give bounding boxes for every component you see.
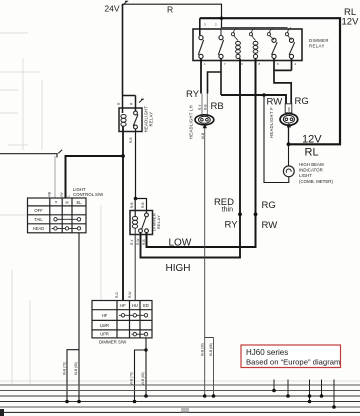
svg-text:OFF: OFF xyxy=(34,208,43,213)
ground bus rails at bottom xyxy=(0,385,360,412)
svg-text:RB: RB xyxy=(211,101,224,112)
headlight relay box xyxy=(119,108,142,132)
svg-text:RELAY: RELAY xyxy=(149,112,154,127)
wire coil output to dimmer switch HU xyxy=(134,228,136,301)
svg-text:LIGHT: LIGHT xyxy=(299,173,312,178)
light control switch feed line from left xyxy=(0,154,57,158)
node junction 12V RL at headlight F xyxy=(287,142,291,146)
node junctions on ground rails left xyxy=(65,394,215,403)
svg-text:(COMB. METER): (COMB. METER) xyxy=(299,179,333,184)
arrowhead at headlight LH bottom terminal xyxy=(203,124,207,128)
jumper hooks from internal rail xyxy=(233,28,291,41)
node junction 24V wire crossing RL bus xyxy=(220,17,223,20)
label RL 12V top right xyxy=(342,7,360,28)
light control switch table xyxy=(28,198,87,233)
svg-text:HF: HF xyxy=(120,303,126,308)
svg-text:T: T xyxy=(55,200,58,205)
light control switch TAIL contacts xyxy=(54,218,81,221)
svg-text:CONTROL S/W: CONTROL S/W xyxy=(73,192,104,197)
switch contact S1 in dimmer relay xyxy=(198,36,203,59)
tiny labels above light control switch xyxy=(48,191,71,196)
ground stub wires bottom right xyxy=(274,380,334,408)
relay coil L2 in dimmer relay xyxy=(253,41,258,58)
tiny wire labels at headlight LH xyxy=(198,104,207,139)
relay coil L1 in dimmer relay xyxy=(236,41,241,58)
label 12V xyxy=(302,134,322,146)
label RG mid xyxy=(262,200,276,211)
svg-text:R-B: R-B xyxy=(203,105,207,111)
svg-text:HEADLIGHT F: HEADLIGHT F xyxy=(269,107,274,138)
label HEADLIGHT F rotated xyxy=(269,107,274,138)
svg-text:RG: RG xyxy=(287,106,291,111)
wire headlight relay switch output down to dimmer relay 2 xyxy=(135,129,137,199)
wire indicator return to RW node xyxy=(264,95,289,183)
svg-text:W-B (30): W-B (30) xyxy=(200,343,204,356)
wire junction feeding headlight relay xyxy=(123,96,136,114)
svg-text:W-B: W-B xyxy=(201,133,205,139)
label RED thin xyxy=(214,197,234,214)
connector tick at 24V feed xyxy=(123,1,129,5)
label HIGH BEAM INDICATOR LIGHT xyxy=(299,162,333,184)
node junction indicator tap on RW wire xyxy=(262,93,266,97)
label DIMMER RELAY rotated xyxy=(152,213,162,231)
connector tick on light switch feed xyxy=(58,150,62,154)
svg-text:HIGH: HIGH xyxy=(166,263,191,274)
switch contacts in small dimmer relay xyxy=(139,213,149,233)
svg-text:ED: ED xyxy=(143,303,149,308)
tiny ground wire labels at headlight LH common xyxy=(200,343,213,356)
svg-text:HJ60 series: HJ60 series xyxy=(246,348,288,357)
wire headlight LH common down to ground rails xyxy=(205,128,214,396)
node junctions on ground rails right xyxy=(272,389,336,409)
wire headlight F common to 12V RL node xyxy=(288,126,290,144)
label DIMMER S/W xyxy=(99,340,127,345)
svg-text:12V: 12V xyxy=(302,134,322,146)
svg-text:LWR: LWR xyxy=(100,323,109,328)
wire RL 12V thick bus (top) xyxy=(200,18,340,144)
wire internal supply rail of dimmer relay xyxy=(222,27,288,29)
label HEADLIGHT LH rotated xyxy=(189,105,194,139)
svg-text:RG: RG xyxy=(262,200,276,211)
tiny ground wire labels left xyxy=(63,362,79,375)
wire thick down to dimmer switch HF xyxy=(122,156,124,301)
wire 24V vertical feed to headlight relay xyxy=(122,4,124,96)
svg-text:R: R xyxy=(167,5,173,15)
dimmer relay (small) box xyxy=(130,211,153,235)
headlight F lamp xyxy=(280,114,298,126)
svg-text:R-B: R-B xyxy=(142,240,146,246)
svg-text:RG: RG xyxy=(295,96,309,107)
label RG xyxy=(295,96,309,107)
connector tick right of headlight relay feed xyxy=(139,99,144,103)
svg-text:INDICATOR: INDICATOR xyxy=(299,168,323,173)
svg-text:RB: RB xyxy=(48,192,52,196)
tiny wire labels R at headlight relay xyxy=(117,102,134,105)
wire RB branch from pin2 to headlight LH xyxy=(208,59,222,96)
svg-text:RW: RW xyxy=(267,97,283,108)
tiny labels below small dimmer relay xyxy=(130,239,146,245)
wire EL output of light control switch to ground rails xyxy=(67,233,79,402)
svg-text:R-B: R-B xyxy=(129,138,133,144)
label LOW xyxy=(169,238,192,249)
wire dimmer switch ED to ground rails xyxy=(135,338,147,402)
svg-text:R-W: R-W xyxy=(136,239,140,245)
wire RG from pins 5,6 to headlight F xyxy=(274,59,292,105)
label RB xyxy=(211,101,224,112)
connector block at headlight F xyxy=(285,104,292,113)
node junction at y156 xyxy=(121,154,125,158)
switch contact in headlight relay xyxy=(133,111,138,129)
label LIGHT CONTROL S/W xyxy=(73,187,104,197)
svg-text:RL: RL xyxy=(305,147,319,159)
relay coil in small dimmer relay xyxy=(132,217,137,229)
svg-text:HEAD: HEAD xyxy=(33,226,45,231)
svg-text:R-B: R-B xyxy=(130,203,134,209)
headlight LH lamp xyxy=(195,115,214,125)
node crossing dots on HIGH and LOW verticals xyxy=(238,212,257,216)
switch contact S4 in dimmer relay xyxy=(289,38,295,58)
note box HJ60 series xyxy=(241,345,341,368)
switch contact S3 in dimmer relay xyxy=(272,38,278,58)
svg-text:W-B (70): W-B (70) xyxy=(130,372,134,385)
svg-text:DIMMER S/W: DIMMER S/W xyxy=(99,340,127,345)
faint wire into light control switch T xyxy=(54,156,56,198)
tiny labels above small dimmer relay xyxy=(130,203,145,209)
wire LOW from small dimmer relay to dimmer relay pin4 xyxy=(147,59,256,248)
svg-text:DIMMER: DIMMER xyxy=(309,38,329,43)
svg-text:R-W: R-W xyxy=(128,292,132,298)
dimmer switch table xyxy=(92,301,152,338)
svg-text:RW: RW xyxy=(262,220,278,231)
svg-text:R-B: R-B xyxy=(141,203,145,209)
svg-text:W-B (66): W-B (66) xyxy=(209,343,213,356)
relay coil in headlight relay xyxy=(121,115,126,127)
svg-text:HU: HU xyxy=(132,303,138,308)
high beam indicator lamp xyxy=(283,166,294,177)
wire headlight relay coil output (thick) xyxy=(122,126,124,156)
switch contact S2 in dimmer relay xyxy=(218,36,223,59)
svg-text:W-B (70): W-B (70) xyxy=(63,362,67,375)
smudge label on rails xyxy=(181,408,189,413)
label RL xyxy=(305,147,319,159)
wire RW from pin2 along y=95 to headlight F xyxy=(221,95,286,104)
pin number labels of dimmer relay xyxy=(204,23,297,67)
svg-text:R-Y: R-Y xyxy=(198,104,202,110)
tiny labels above dimmer switch xyxy=(115,292,132,298)
svg-text:thin: thin xyxy=(222,207,233,214)
label HEADLIGHT RELAY rotated xyxy=(144,106,154,133)
dimmer switch HF row contacts xyxy=(119,314,148,317)
svg-text:HIGH BEAM: HIGH BEAM xyxy=(299,162,324,167)
svg-text:HEADLIGHT LH: HEADLIGHT LH xyxy=(189,105,194,139)
svg-text:RELAY: RELAY xyxy=(309,44,325,49)
thin lamp lead wires into headlight LH xyxy=(202,94,207,117)
wire jog to dimmer relay 2 contact xyxy=(135,199,146,217)
wire RY from dimmer relay pin1 to headlight LH xyxy=(200,59,202,94)
label RY xyxy=(186,89,200,100)
label DIMMER RELAY (right of box) xyxy=(309,38,329,49)
svg-text:R-Y: R-Y xyxy=(130,239,134,245)
label RW xyxy=(267,97,283,108)
svg-text:EL: EL xyxy=(76,200,82,205)
label R on 24V wire xyxy=(167,5,173,15)
node 24V supply label xyxy=(104,4,119,14)
svg-text:H: H xyxy=(65,200,68,205)
svg-text:L: L xyxy=(67,195,71,197)
node junction feeding dimmer relay 2 xyxy=(134,197,138,201)
svg-text:TAIL: TAIL xyxy=(34,217,43,222)
svg-text:RY: RY xyxy=(225,220,239,231)
tiny label R-B below headlight relay xyxy=(129,138,133,144)
wire HIGH from small dimmer relay to dimmer relay pin3 xyxy=(141,59,241,258)
svg-text:RY: RY xyxy=(186,89,200,100)
label HIGH xyxy=(166,263,191,274)
svg-text:W-B (60): W-B (60) xyxy=(141,372,145,385)
wire R from 24V supply to dimmer relay (top horizontal) xyxy=(123,4,222,27)
label RW mid xyxy=(262,220,278,231)
wire feed from RL bus into dimmer relay contact 1 xyxy=(199,18,201,35)
node junction ED ground split xyxy=(144,348,147,351)
svg-text:W-B (80): W-B (80) xyxy=(74,362,78,375)
dimmer relay U2 box (top) xyxy=(193,29,302,61)
svg-text:R-G: R-G xyxy=(115,292,119,298)
svg-text:12V: 12V xyxy=(342,17,360,28)
svg-text:Based on “Europe” diagram: Based on “Europe” diagram xyxy=(246,358,340,367)
wire thick to light control switch xyxy=(66,156,124,198)
label RY mid xyxy=(225,220,239,231)
svg-text:UPR: UPR xyxy=(100,332,109,337)
svg-text:24V: 24V xyxy=(104,4,119,14)
svg-text:LOW: LOW xyxy=(169,238,192,249)
wire to high beam indicator xyxy=(288,144,290,166)
arrowhead at headlight F bottom terminal xyxy=(287,123,291,127)
svg-text:RELAY: RELAY xyxy=(156,215,161,229)
light control switch HEAD contacts xyxy=(52,227,81,230)
corner ink blob bottom left xyxy=(0,409,4,416)
svg-text:HF: HF xyxy=(102,313,108,318)
dimmer switch UPR row contacts xyxy=(132,333,148,336)
tiny ground wire labels dimmer switch xyxy=(130,372,146,385)
wire stub into contact 2 from rail xyxy=(220,28,222,36)
